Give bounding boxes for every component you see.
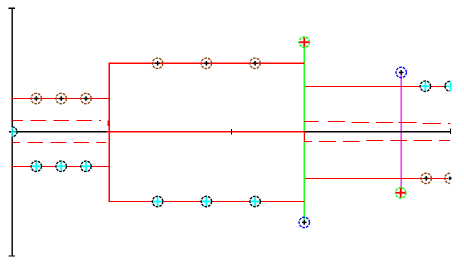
profile step vertical (109, 63, 110, 202)
profile top-left outline (12, 98, 110, 99)
profile bottom-right outline (305, 178, 448, 179)
point marker cyan C1 (36,166) (31, 161, 41, 171)
point marker brown B6 (255,63) (250, 58, 260, 68)
point marker brown B5 (206,63) (201, 58, 211, 68)
construction line green vertical (304, 42, 305, 222)
hidden dashed line bottom-left (13, 142, 107, 143)
point marker cyan C2 (61,166) (56, 161, 66, 171)
hidden dashed taper line bottom-right (304, 140, 450, 142)
point marker green G1 top of green line (299, 37, 309, 47)
point marker brown B2 (61,98) (56, 93, 66, 103)
point marker cyan C3 (86,166) (81, 161, 91, 171)
datum line bottom tick (9, 256, 16, 257)
point marker blue U1 top of magenta line (396, 67, 406, 77)
profile bottom-left outline (12, 166, 110, 167)
hidden dashed elbow right-middle (304, 132, 305, 142)
profile top-right outline (305, 86, 445, 87)
half point marker right edge bottom (450,178) (445, 173, 452, 183)
point marker cyan C4 (157,201) (152, 196, 162, 206)
profile bottom-middle outline (109, 201, 305, 202)
point marker brown B4 (157,63) (152, 58, 162, 68)
datum vertical line left (12, 8, 13, 256)
construction line magenta vertical (401, 72, 402, 192)
centerline middle tick (231, 129, 232, 134)
point marker cyan C5 (206,201) (201, 196, 211, 206)
point marker green G2 bottom of magenta line (396, 188, 406, 198)
hidden dashed taper line top-right (304, 121, 450, 124)
profile top-middle outline (109, 63, 305, 64)
point marker cyan C6 (255,201) (250, 196, 260, 206)
datum line top tick (9, 8, 16, 9)
half point marker right edge top (450,86) (444, 81, 451, 91)
hidden dashed line top-left (12, 120, 100, 121)
centerline black right segment (305, 131, 450, 132)
centerline red middle segment (106, 131, 305, 132)
point marker cyan C7 (425,86) (420, 81, 430, 91)
point marker blue U2 bottom of green line (299, 217, 309, 227)
centerline black left segment (9, 131, 107, 132)
half point marker left edge (12,132) (11, 127, 18, 137)
centerline right end tick (450, 128, 451, 134)
hidden dashed elbow top-left (108, 120, 109, 126)
point marker brown B1 (36,98) (31, 93, 41, 103)
point marker brown B3 (86,98) (81, 93, 91, 103)
point marker brown B7 (426,178) (421, 173, 431, 183)
